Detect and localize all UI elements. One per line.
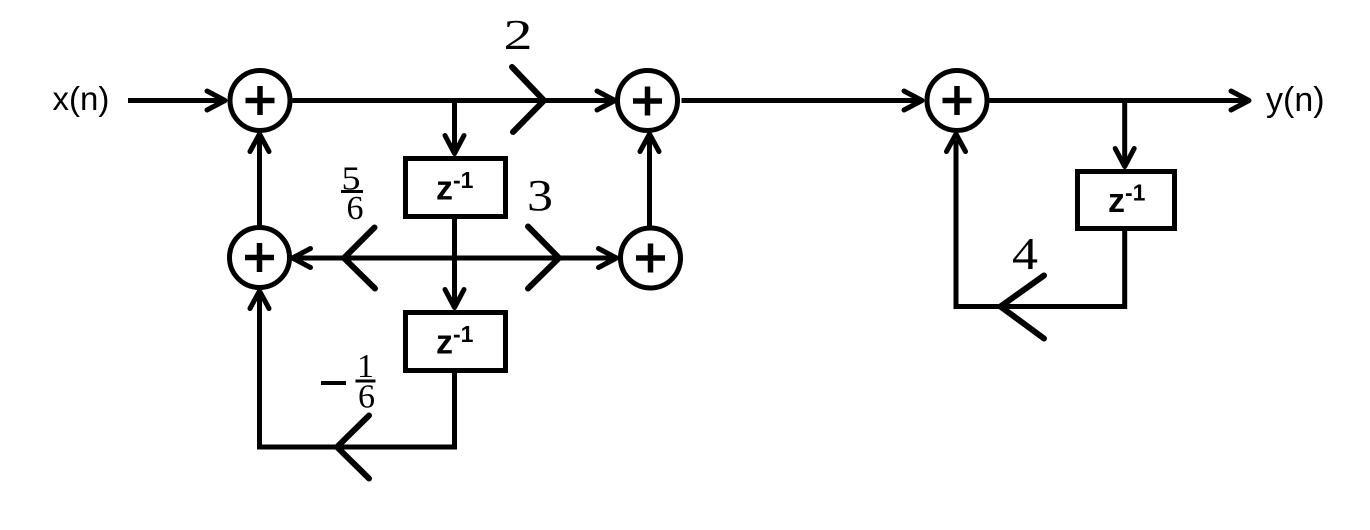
svg-text:6: 6 bbox=[347, 190, 364, 227]
wire Z1 to row2 cross and Z2 bbox=[452, 219, 457, 304]
wire input x(n) to adder A1 bbox=[128, 98, 221, 103]
gain 2 chevron bbox=[512, 67, 544, 132]
svg-text:x(n): x(n) bbox=[53, 80, 110, 117]
svg-text:4: 4 bbox=[1012, 228, 1038, 279]
adder A3 bbox=[230, 228, 290, 288]
svg-text:3: 3 bbox=[527, 171, 553, 220]
wire A1 to adder A2 bbox=[293, 98, 612, 103]
svg-text:6: 6 bbox=[358, 379, 375, 416]
wire A2 to adder A5 bbox=[682, 98, 919, 103]
wire A4 to A2 bbox=[647, 138, 652, 228]
svg-text:z-1: z-1 bbox=[436, 167, 474, 208]
svg-text:2: 2 bbox=[504, 13, 533, 59]
label gain -1/6 bbox=[321, 381, 346, 385]
wire Z2 feedback to A3 bbox=[260, 295, 455, 447]
delay block Z1 bbox=[406, 159, 506, 217]
adder A5 bbox=[927, 71, 987, 131]
wire Z3 feedback to A5 bbox=[956, 140, 1125, 307]
node junction row1 to Z1 bbox=[452, 101, 457, 151]
svg-text:z-1: z-1 bbox=[1108, 180, 1146, 221]
delay block Z2 bbox=[406, 313, 506, 371]
wire row2 cross to adder A3 bbox=[296, 256, 455, 261]
adder A4 bbox=[621, 228, 681, 288]
svg-text:y(n): y(n) bbox=[1266, 81, 1325, 119]
svg-text:z-1: z-1 bbox=[436, 321, 474, 362]
wire row2 cross to adder A4 bbox=[455, 256, 613, 261]
node junction row1 right to Z3 bbox=[1122, 101, 1127, 164]
gain -1/6 chevron bbox=[337, 416, 369, 479]
wire A3 to A1 bbox=[257, 138, 262, 227]
adder A1 bbox=[230, 71, 290, 131]
delay block Z3 bbox=[1078, 172, 1175, 229]
wire A5 to output y(n) bbox=[990, 98, 1246, 103]
gain 3 chevron bbox=[528, 227, 559, 289]
adder A2 bbox=[618, 71, 678, 131]
gain 5/6 chevron bbox=[344, 228, 375, 289]
gain 4 chevron bbox=[1001, 276, 1045, 339]
